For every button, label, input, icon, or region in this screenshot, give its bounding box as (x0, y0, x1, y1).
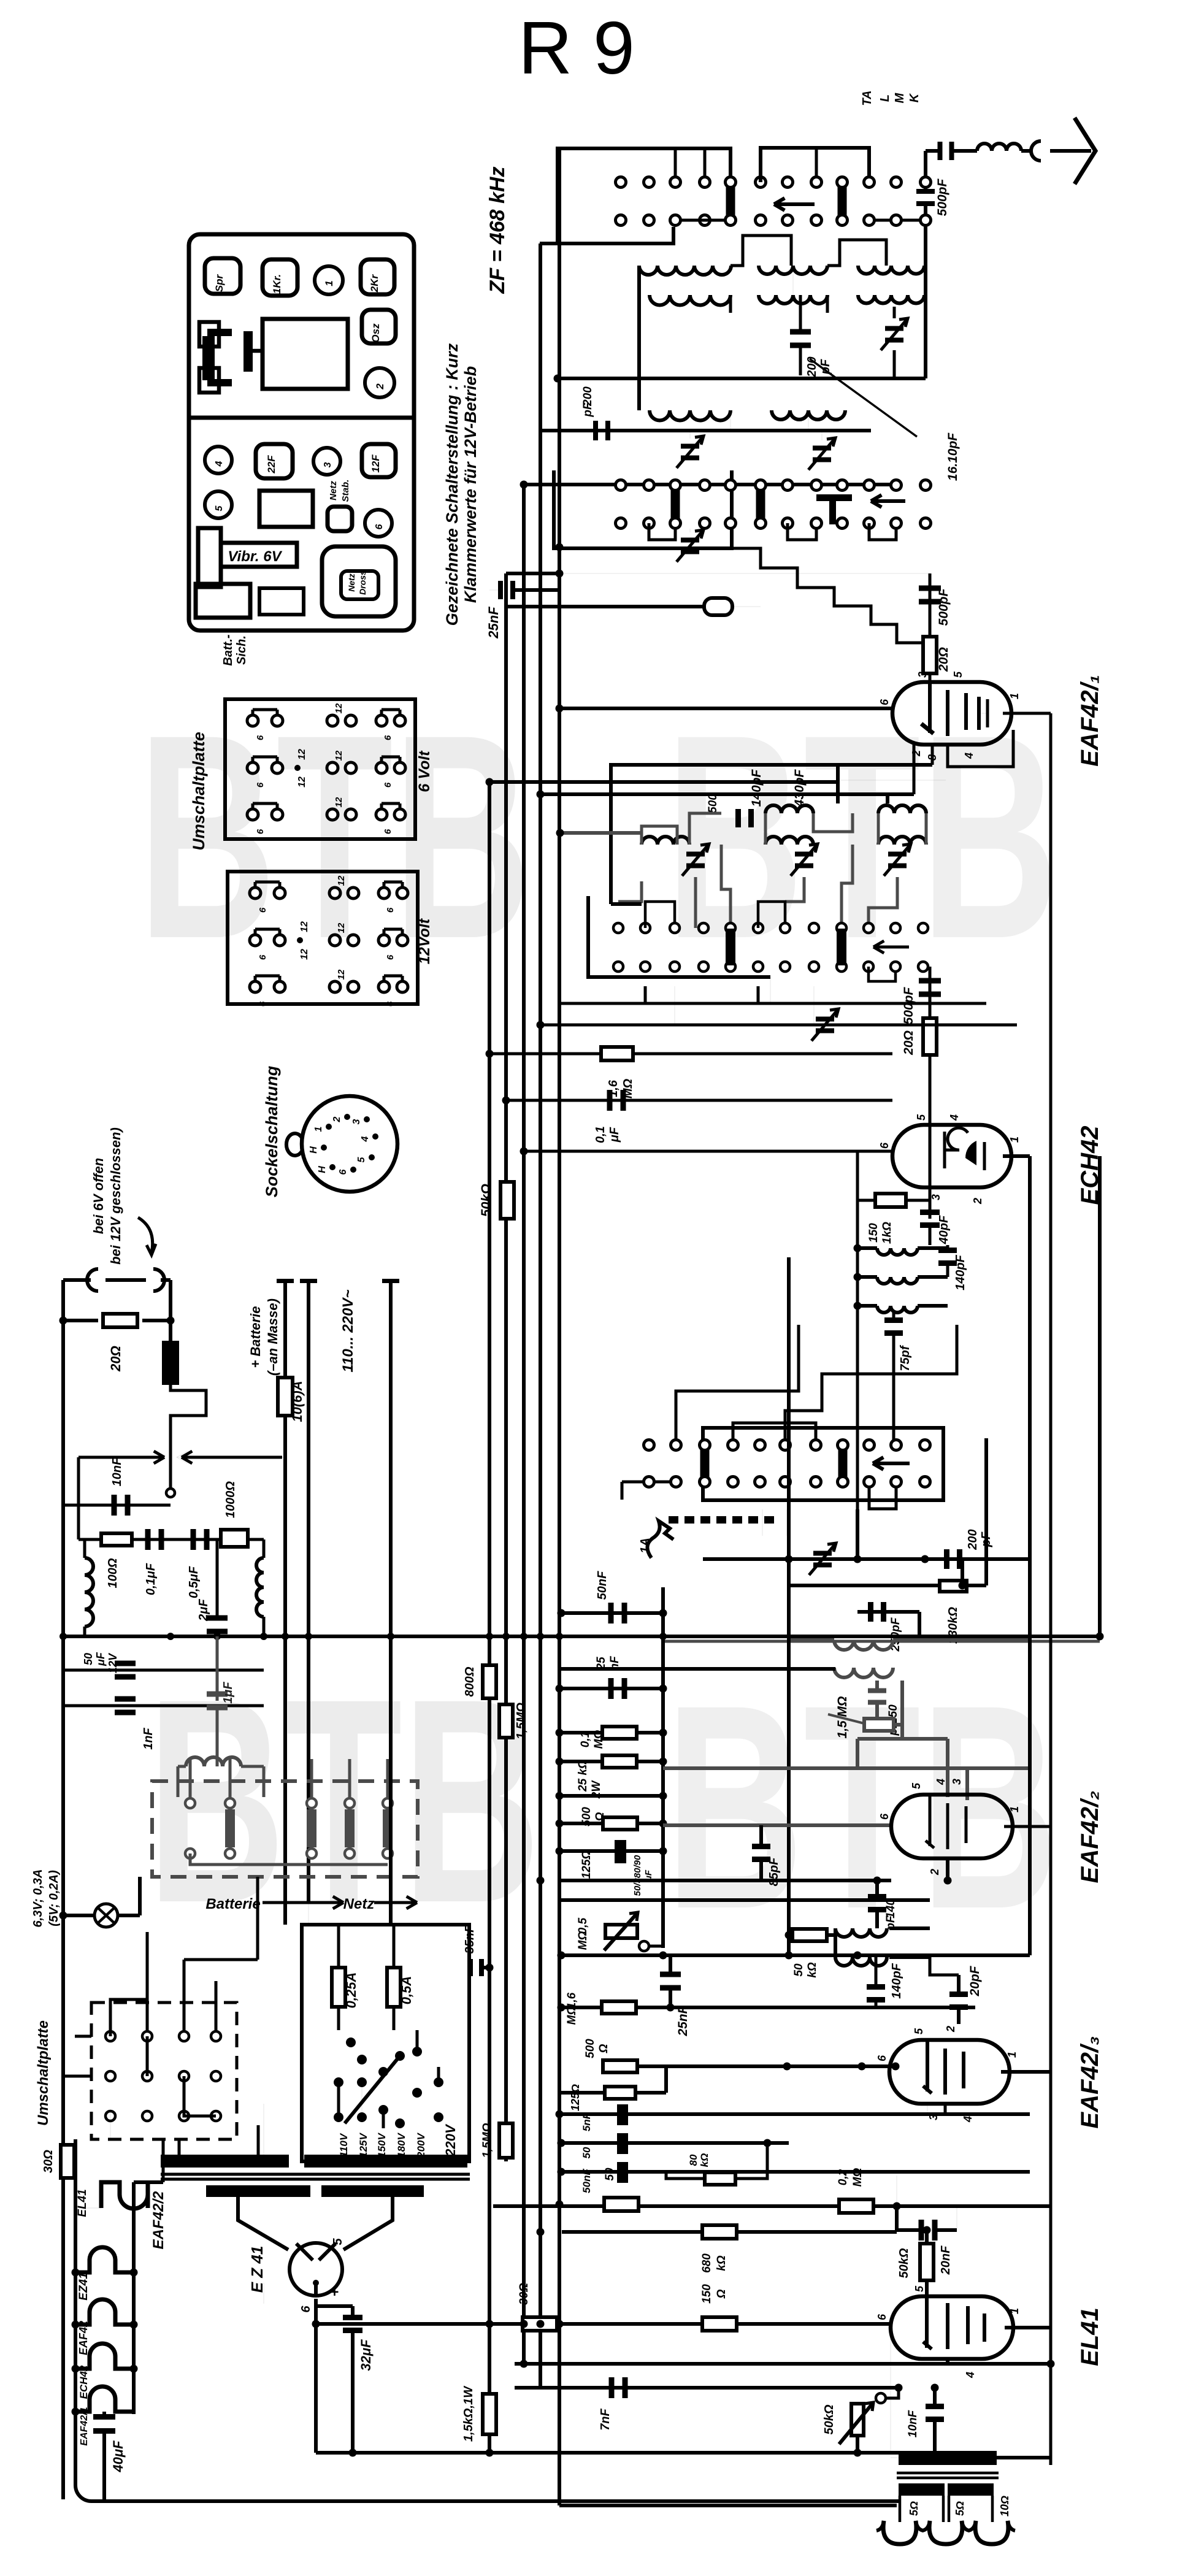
svg-text:12: 12 (334, 703, 344, 713)
svg-text:140pF: 140pF (890, 1963, 903, 1999)
svg-text:50: 50 (82, 1653, 94, 1665)
antenna cap 500pF (938, 142, 943, 160)
line y3854 (515, 2362, 1051, 2366)
speakers (883, 2521, 916, 2544)
svg-text:E Z 41: E Z 41 (248, 2246, 266, 2293)
svg-text:Batterie: Batterie (205, 1896, 260, 1912)
gray coil feed (560, 831, 642, 835)
svg-text:20Ω: 20Ω (902, 1030, 916, 1056)
svg-text:220V: 220V (443, 2123, 458, 2157)
svg-text:6: 6 (876, 2055, 888, 2061)
fuse 0,5A (387, 1968, 401, 2007)
ladder row cap bar (561, 1849, 663, 1853)
svg-text:1000Ω: 1000Ω (224, 1481, 237, 1518)
mid dot rows (613, 923, 623, 933)
svg-text:6: 6 (878, 1142, 891, 1149)
svg-text:nF: nF (608, 1655, 621, 1671)
fuse 10 6 A (278, 1378, 293, 1416)
panel button Osz (362, 310, 396, 343)
wire main left vertical (61, 1280, 65, 2499)
mid wires (645, 902, 675, 928)
svg-text:BTB: BTB (665, 1645, 1059, 1969)
svg-text:MΩ: MΩ (566, 2006, 578, 2025)
staircase right top (731, 236, 791, 266)
svg-text:180V: 180V (396, 2132, 407, 2157)
feed line x1516 with 500pF 20ohm (929, 573, 932, 682)
cap 32uF (316, 2304, 353, 2308)
riser joins (147, 1931, 148, 1933)
svg-text:Klammerwerte für 12V-Betrieb: Klammerwerte für 12V-Betrieb (461, 366, 480, 603)
switch plate 12V box (228, 872, 418, 1004)
svg-text:Netz: Netz (328, 481, 339, 500)
bus vertical x854 (522, 485, 526, 2364)
svg-text:10nF: 10nF (110, 1457, 124, 1486)
svg-text:32μF: 32μF (358, 2339, 374, 2371)
box B bottom staircase (732, 548, 930, 643)
gray feeds (663, 1766, 1030, 1770)
svg-text:4: 4 (964, 2372, 976, 2379)
coil left (85, 1558, 93, 1627)
svg-text:6: 6 (385, 907, 396, 913)
svg-text:+ Batterie: + Batterie (248, 1306, 263, 1368)
IF2 coil primary (834, 1640, 893, 1650)
lamp 6.3V (94, 1904, 118, 1927)
heater rails (74, 2139, 77, 2485)
svg-text:10Ω: 10Ω (999, 2496, 1011, 2517)
bus vertical x798 (488, 780, 491, 2395)
ladder row 500ohm (561, 1822, 663, 1825)
svg-text:130kΩ: 130kΩ (946, 1607, 960, 1644)
EL41 pin4 stub (946, 2359, 949, 2364)
svg-text:500: 500 (584, 2039, 597, 2058)
svg-text:12: 12 (297, 776, 307, 788)
bus junctions (556, 543, 564, 551)
mid cap 500pF (735, 809, 741, 827)
ladder row plain (561, 1794, 663, 1798)
tube socket circle (302, 1096, 397, 1192)
svg-text:680: 680 (700, 2253, 713, 2273)
tube EAF42/1 (892, 682, 1011, 745)
svg-text:6: 6 (338, 1169, 348, 1175)
IF3 cap 140pF (867, 1984, 885, 1990)
bus bottom joins (488, 2434, 491, 2453)
wires to switch (389, 1282, 393, 1925)
svg-text:Netz: Netz (343, 1896, 375, 1912)
panel button 12F (362, 444, 396, 477)
switch lever (345, 2056, 400, 2123)
line y1794 with 0,1uF (506, 1099, 892, 1102)
mid coils row1 (765, 805, 813, 813)
line y617 (558, 377, 926, 380)
svg-text:140pF: 140pF (954, 1254, 967, 1290)
svg-text:6: 6 (374, 524, 385, 529)
lines y3447 3494 3541 (561, 2112, 1030, 2116)
bottom plate wires (110, 1999, 147, 2036)
box C bottom wire (869, 1487, 896, 1509)
top edge segment 2 (761, 148, 869, 182)
svg-text:4: 4 (962, 2116, 974, 2123)
output transformer secondary (899, 2483, 945, 2496)
svg-text:MΩ: MΩ (851, 2168, 864, 2187)
heater rung EAF42/3h (75, 2299, 134, 2325)
svg-text:6: 6 (383, 782, 393, 788)
line y1295 (540, 792, 914, 796)
res 1,6M (602, 2001, 636, 2014)
line y3273 (561, 2006, 975, 2009)
output transformer primary (899, 2451, 997, 2465)
IF2 res 1,5M gray (864, 1719, 894, 1731)
cap 25nF mid (660, 1972, 681, 1977)
antenna col down (924, 226, 927, 378)
svg-text:50kΩ: 50kΩ (823, 2404, 836, 2434)
svg-text:12F: 12F (370, 454, 382, 473)
line y702 (540, 429, 871, 432)
rf coils group3 (858, 266, 924, 274)
cap 35nF (468, 1959, 473, 1976)
IF2 coil secondary (834, 1668, 893, 1677)
svg-text:6: 6 (255, 782, 266, 788)
panel lamp 1 (315, 266, 343, 294)
svg-text:pF: pF (581, 402, 594, 418)
line y989 (506, 605, 704, 608)
svg-text:1A: 1A (639, 1538, 652, 1554)
res 80k (705, 2172, 735, 2185)
mid trimmers (686, 852, 705, 857)
res 800ohm bus (483, 1665, 496, 1698)
svg-text:35nF: 35nF (463, 1925, 477, 1953)
filled resistor col 1191 (726, 186, 735, 217)
svg-text:6: 6 (383, 829, 393, 834)
feed line x1516 ECH with 500pF 20ohm (929, 967, 932, 1125)
svg-text:BTB: BTB (665, 675, 1059, 999)
svg-text:6: 6 (258, 1001, 268, 1006)
svg-text:5: 5 (913, 2028, 925, 2034)
watermark BTB row2 (147, 1639, 540, 1963)
EAF42/1 internals (928, 682, 932, 733)
svg-text:430pF: 430pF (792, 769, 807, 807)
arrow band switch top (774, 202, 815, 206)
svg-text:MΩ: MΩ (577, 1931, 589, 1950)
transformer primary bars (161, 2155, 289, 2168)
osc cap 40pF (929, 1173, 932, 1219)
svg-text:20Ω: 20Ω (937, 647, 951, 672)
cap 20nF (919, 2220, 924, 2241)
svg-text:Osz: Osz (370, 323, 382, 343)
heater rung EAF42/1h (75, 2386, 134, 2412)
panel button small (328, 507, 352, 531)
svg-text:6: 6 (876, 2313, 888, 2320)
svg-text:2Kr: 2Kr (369, 274, 380, 293)
panel divider (189, 416, 414, 420)
svg-text:5Ω: 5Ω (954, 2501, 966, 2516)
svg-text:1: 1 (1008, 2308, 1021, 2314)
svg-text:5: 5 (910, 1782, 922, 1789)
svg-text:Spr: Spr (213, 274, 225, 292)
cap 20pF (949, 1991, 968, 1997)
svg-text:30Ω: 30Ω (42, 2150, 55, 2173)
svg-text:80: 80 (688, 2154, 699, 2166)
resistor 1,5k 1W (483, 2394, 496, 2434)
mid box bottom stubs (644, 986, 647, 1003)
switch contacts (346, 2037, 356, 2047)
svg-text:6: 6 (255, 735, 266, 740)
svg-text:25nF: 25nF (676, 2005, 690, 2036)
svg-text:kΩ: kΩ (806, 1962, 819, 1978)
panel lamp 3 (313, 448, 340, 475)
row2 link wire (681, 219, 726, 222)
svg-text:140pF: 140pF (750, 769, 764, 807)
svg-text:1: 1 (313, 1126, 324, 1132)
IF2 gray links (894, 1723, 902, 1727)
T bar symbol (816, 494, 852, 501)
row2 right links (874, 219, 891, 222)
svg-text:125Ω: 125Ω (569, 2084, 581, 2111)
svg-text:6: 6 (258, 954, 268, 960)
svg-text:bei 12V geschlossen): bei 12V geschlossen) (108, 1127, 123, 1265)
cap 10nF tone (926, 2404, 944, 2409)
svg-text:1nF: 1nF (142, 1727, 155, 1749)
panel small rect (259, 491, 313, 527)
dot rows top left (616, 177, 626, 188)
svg-text:5: 5 (952, 671, 964, 678)
svg-text:ECH42: ECH42 (78, 2365, 90, 2399)
antenna coil (977, 144, 1021, 151)
svg-text:2μF: 2μF (197, 1599, 210, 1622)
IF3 primary coil (835, 1928, 887, 1937)
svg-text:0,25A: 0,25A (343, 1972, 359, 2009)
trimmers row2 (681, 444, 699, 449)
filled resistor col TA (838, 186, 847, 217)
panel lamp 5 (205, 491, 232, 518)
svg-text:500: 500 (580, 1807, 593, 1827)
svg-text:12: 12 (336, 875, 347, 886)
line y3893 7nF (515, 2386, 902, 2390)
cap 50uF 12V (63, 1669, 264, 1672)
svg-text:H: H (309, 1146, 319, 1154)
svg-text:M: M (893, 92, 907, 103)
svg-text:12Volt: 12Volt (416, 918, 433, 964)
svg-text:500pF: 500pF (902, 986, 916, 1024)
svg-text:1Kr.: 1Kr. (271, 274, 283, 294)
trimmer below C (813, 1551, 832, 1556)
mid coils row2 (642, 837, 689, 845)
svg-text:kΩ: kΩ (715, 2255, 728, 2271)
osc arrow C (873, 1462, 910, 1465)
svg-text:4: 4 (360, 1136, 370, 1142)
svg-text:EAF42/2: EAF42/2 (150, 2191, 167, 2249)
svg-text:500pF: 500pF (937, 588, 951, 626)
svg-text:2: 2 (332, 1116, 342, 1122)
svg-text:1,5MΩ: 1,5MΩ (515, 1703, 528, 1739)
gray coil (186, 1757, 241, 1766)
antenna down wire (924, 151, 927, 182)
svg-text:50: 50 (604, 2168, 616, 2181)
svg-text:6 Volt: 6 Volt (416, 750, 433, 792)
output transformer core (897, 2472, 999, 2475)
coil right (256, 1558, 264, 1617)
res 0,2M grid (839, 2199, 873, 2213)
svg-text:2: 2 (972, 1198, 984, 1205)
panel lamp 4 (205, 447, 232, 473)
line y2504 (856, 1509, 859, 1559)
cap 200pF mid (790, 329, 811, 335)
svg-text:1: 1 (1008, 1806, 1021, 1812)
choke filled (162, 1341, 179, 1385)
dot box A outline (540, 148, 731, 243)
EZ41 cathode run (314, 2299, 318, 2453)
panel lamp 6 (365, 510, 392, 537)
EL41 internals (925, 2296, 929, 2348)
svg-text:12V: 12V (107, 1652, 119, 1673)
line y1636 (559, 1002, 986, 1005)
svg-text:Stab.: Stab. (340, 480, 351, 502)
svg-text:12: 12 (334, 797, 344, 807)
svg-text:3: 3 (927, 2114, 940, 2120)
svg-text:500: 500 (707, 794, 719, 813)
svg-text:75pf: 75pf (899, 1344, 912, 1371)
svg-text:500pF: 500pF (935, 178, 949, 216)
antenna symbol (1075, 118, 1095, 184)
svg-text:16.10pF: 16.10pF (946, 432, 960, 481)
svg-text:5: 5 (214, 505, 224, 511)
rf coils row3 (650, 410, 731, 421)
svg-text:4: 4 (935, 1779, 947, 1785)
rf coils group2 (759, 266, 827, 274)
cap 200pF right (944, 1549, 949, 1569)
coil verticals (637, 266, 641, 404)
line y3188 (561, 1953, 1030, 1957)
bus vertical x912 (558, 148, 561, 2505)
heater EL41 big (101, 2182, 148, 2209)
svg-text:4: 4 (214, 461, 224, 467)
mid arrow (873, 946, 909, 949)
line y3066 (559, 1879, 891, 1882)
svg-text:50nF: 50nF (596, 1571, 609, 1600)
panel connector symbols (202, 336, 215, 380)
transformer secondary bars (206, 2185, 310, 2197)
EAF42/2 internals (929, 1794, 932, 1846)
filled caps column (617, 2104, 628, 2125)
svg-text:40μF: 40μF (110, 2440, 126, 2473)
speaker wires (899, 2496, 902, 2522)
svg-text:150V: 150V (376, 2132, 388, 2157)
EZ41 wires (238, 2197, 288, 2250)
transformer core (161, 2173, 470, 2176)
svg-text:0,2: 0,2 (837, 2169, 849, 2185)
bus dots mid (540, 1769, 541, 1771)
vertical x1447 (886, 794, 889, 803)
tube EAF42/3 (889, 2040, 1010, 2104)
pot 50k tone (851, 2404, 864, 2436)
EL41 plate wire (1005, 2326, 1051, 2329)
bottom dashed box (91, 2003, 237, 2139)
line y1671 with trimmer (540, 1024, 1017, 1027)
line y1247 (611, 763, 932, 767)
osc coils (877, 1248, 918, 1255)
svg-text:5: 5 (356, 1156, 367, 1162)
dot box B outline (554, 470, 732, 548)
svg-text:200: 200 (966, 1529, 980, 1550)
line y1718 with 1,6M (489, 1052, 892, 1056)
cap 200pF left (593, 421, 598, 440)
panel bottom rects (196, 584, 250, 618)
svg-text:100Ω: 100Ω (106, 1558, 120, 1588)
panel button 22F (256, 444, 293, 478)
svg-text:6: 6 (299, 2306, 313, 2313)
battery fuse loop (63, 1278, 91, 1282)
svg-text:bei 6V offen: bei 6V offen (91, 1158, 106, 1234)
svg-text:(5V; 0,2A): (5V; 0,2A) (47, 1870, 61, 1926)
svg-text:EZ41: EZ41 (77, 2272, 90, 2300)
svg-text:Ω: Ω (594, 1812, 607, 1822)
res 50ohm (619, 2204, 623, 2208)
ladder end dots (659, 1609, 667, 1617)
svg-text:5Ω: 5Ω (908, 2501, 920, 2516)
panel button 1Kr (263, 259, 297, 296)
svg-text:L: L (878, 94, 892, 102)
svg-text:Sockelschaltung: Sockelschaltung (263, 1065, 281, 1197)
svg-text:EAF42/₃: EAF42/₃ (1076, 2036, 1103, 2128)
switch tap wires (337, 2082, 340, 2117)
svg-text:1: 1 (323, 280, 335, 286)
wire choke branch (169, 1321, 172, 1341)
ECH42 wires (524, 1150, 892, 1153)
svg-text:20nF: 20nF (939, 2245, 953, 2275)
osc box wires (892, 1349, 895, 1439)
svg-text:3: 3 (951, 1779, 963, 1785)
EAF42/3 wires (1001, 2070, 1051, 2074)
misc right verticals (1028, 1156, 1032, 1955)
svg-text:12: 12 (336, 969, 347, 979)
svg-text:50: 50 (581, 2147, 592, 2158)
heater rung ECH42 (75, 2344, 134, 2369)
svg-text:25: 25 (595, 1657, 608, 1671)
cap 85pF (752, 1844, 770, 1849)
cap 140pF2 (868, 1894, 886, 1899)
switch plate 6V pads (247, 715, 258, 726)
ecl feed (896, 2175, 897, 2204)
ladder lines (561, 1611, 663, 1615)
control panel outline (189, 234, 414, 631)
tube EL41 (891, 2296, 1013, 2359)
svg-text:85pF: 85pF (767, 1857, 781, 1886)
svg-text:1kΩ: 1kΩ (881, 1222, 894, 1244)
svg-text:3: 3 (323, 462, 333, 467)
line y1272 (489, 780, 946, 781)
mid maze wires (642, 826, 677, 845)
ECH42 internals (929, 1125, 932, 1173)
svg-text:0,5μF: 0,5μF (187, 1566, 201, 1598)
svg-text:6: 6 (383, 735, 393, 740)
svg-text:200V: 200V (415, 2132, 427, 2158)
svg-text:6: 6 (258, 907, 268, 913)
svg-text:EAF42/₂: EAF42/₂ (1076, 1791, 1103, 1884)
svg-text:140: 140 (884, 1899, 897, 1919)
svg-text:Ω: Ω (617, 2169, 630, 2179)
svg-text:10(6)A: 10(6)A (290, 1381, 305, 1422)
svg-text:EL41: EL41 (1076, 2307, 1103, 2366)
box A top stubs (674, 148, 677, 177)
EAF42/3 internals (926, 2040, 929, 2091)
svg-text:4: 4 (963, 753, 975, 759)
svg-text:Umschaltplatte: Umschaltplatte (190, 732, 208, 851)
panel Vibr 6V (198, 528, 221, 587)
cap 25nF (498, 581, 503, 599)
svg-text:150: 150 (867, 1223, 880, 1243)
svg-text:6: 6 (385, 1001, 396, 1006)
heater rung EZ41 (75, 2247, 134, 2272)
svg-text:1: 1 (1008, 693, 1021, 699)
